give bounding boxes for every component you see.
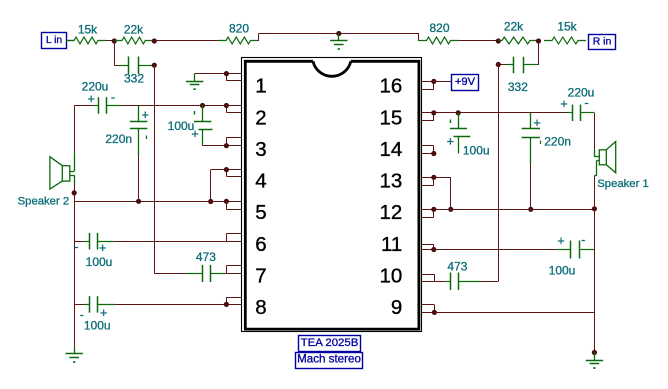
svg-text:Speaker 1: Speaker 1: [597, 178, 649, 190]
svg-text:R in: R in: [593, 36, 612, 47]
svg-text:332: 332: [508, 80, 528, 94]
svg-text:+: +: [191, 127, 198, 141]
svg-text:473: 473: [447, 260, 467, 274]
svg-text:-: -: [75, 240, 79, 254]
svg-text:11: 11: [381, 233, 402, 256]
svg-text:4: 4: [255, 170, 266, 193]
svg-text:+: +: [533, 116, 540, 130]
svg-text:100u: 100u: [84, 319, 111, 333]
svg-text:15k: 15k: [78, 22, 98, 36]
svg-text:9: 9: [391, 296, 402, 319]
svg-text:16: 16: [379, 75, 402, 98]
svg-text:15k: 15k: [557, 20, 577, 34]
svg-text:10: 10: [379, 265, 402, 288]
svg-text:12: 12: [379, 201, 402, 224]
svg-text:473: 473: [196, 250, 216, 264]
svg-text:-: -: [581, 232, 585, 247]
svg-text:TEA 2025B: TEA 2025B: [301, 337, 359, 349]
svg-text:5: 5: [255, 201, 266, 224]
svg-text:-: -: [80, 308, 84, 322]
svg-text:1: 1: [255, 75, 266, 98]
svg-text:+: +: [100, 306, 107, 320]
svg-text:220n: 220n: [105, 132, 132, 146]
svg-text:22k: 22k: [124, 22, 144, 36]
svg-text:100u: 100u: [463, 144, 490, 158]
svg-text:220u: 220u: [568, 86, 595, 100]
svg-text:22k: 22k: [504, 20, 524, 34]
svg-text:Mach stereo: Mach stereo: [297, 352, 361, 365]
svg-text:100u: 100u: [86, 255, 113, 269]
svg-text:7: 7: [255, 265, 266, 288]
svg-text:-: -: [584, 95, 588, 110]
svg-text:15: 15: [379, 106, 402, 129]
svg-text:100u: 100u: [549, 264, 576, 278]
svg-text:L in: L in: [46, 35, 63, 46]
svg-text:Speaker 2: Speaker 2: [18, 196, 70, 208]
svg-text:14: 14: [379, 138, 402, 161]
svg-text:-: -: [111, 90, 115, 105]
svg-text:100u: 100u: [168, 119, 195, 133]
svg-text:220n: 220n: [544, 135, 571, 149]
svg-text:332: 332: [124, 72, 144, 86]
svg-text:8: 8: [255, 296, 266, 319]
svg-text:+: +: [88, 92, 95, 106]
svg-text:820: 820: [429, 21, 449, 35]
svg-text:13: 13: [379, 170, 402, 193]
svg-text:+9V: +9V: [455, 76, 476, 88]
svg-text:3: 3: [255, 138, 266, 161]
svg-text:6: 6: [255, 233, 266, 256]
svg-text:2: 2: [255, 106, 266, 129]
svg-text:+: +: [557, 234, 564, 248]
svg-text:820: 820: [229, 22, 249, 36]
svg-text:+: +: [560, 97, 567, 111]
svg-text:220u: 220u: [82, 80, 109, 94]
svg-text:+: +: [142, 108, 149, 122]
svg-text:+: +: [447, 135, 454, 149]
svg-text:+: +: [99, 241, 106, 255]
